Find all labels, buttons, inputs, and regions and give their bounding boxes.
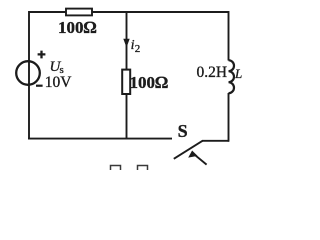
cut-off caption glyph box left: [111, 166, 121, 174]
inductor L coil: three bumps on right wire: [229, 60, 235, 93]
wire bottom-right: corner leftwards to switch pivot: [202, 140, 229, 142]
wire right: top-right corner down to inductor top: [228, 11, 230, 61]
voltage source Us circle: [16, 61, 40, 85]
svg-text:100Ω: 100Ω: [58, 18, 97, 37]
actuation arrow pointing at switch blade: [194, 154, 207, 165]
svg-text:10V: 10V: [45, 74, 73, 91]
minus polarity mark: [36, 85, 43, 87]
svg-text:0.2H: 0.2H: [197, 64, 228, 81]
cut-off caption glyph box right: [138, 166, 148, 174]
svg-text:100Ω: 100Ω: [130, 73, 169, 92]
wire right: inductor bottom down to bottom-right corner: [228, 93, 230, 142]
wire bottom: bottom-left corner to switch left contact: [28, 138, 172, 140]
wire middle branch: vertical: [126, 12, 128, 139]
svg-text:S: S: [178, 121, 188, 141]
wire left: top-left corner down to bottom-left corner: [28, 11, 30, 140]
svg-text:2: 2: [135, 43, 141, 55]
resistor R2 middle 100ohm: rectangle body: [122, 70, 130, 94]
svg-text:L: L: [234, 66, 242, 81]
wire top: left corner to right corner: [29, 11, 229, 13]
switch S blade (open, diagonal): [174, 141, 203, 159]
current arrow i2 (down) on middle branch: [123, 39, 129, 48]
resistor R top 100ohm: rectangle body: [66, 9, 92, 16]
plus polarity mark: [38, 51, 46, 59]
